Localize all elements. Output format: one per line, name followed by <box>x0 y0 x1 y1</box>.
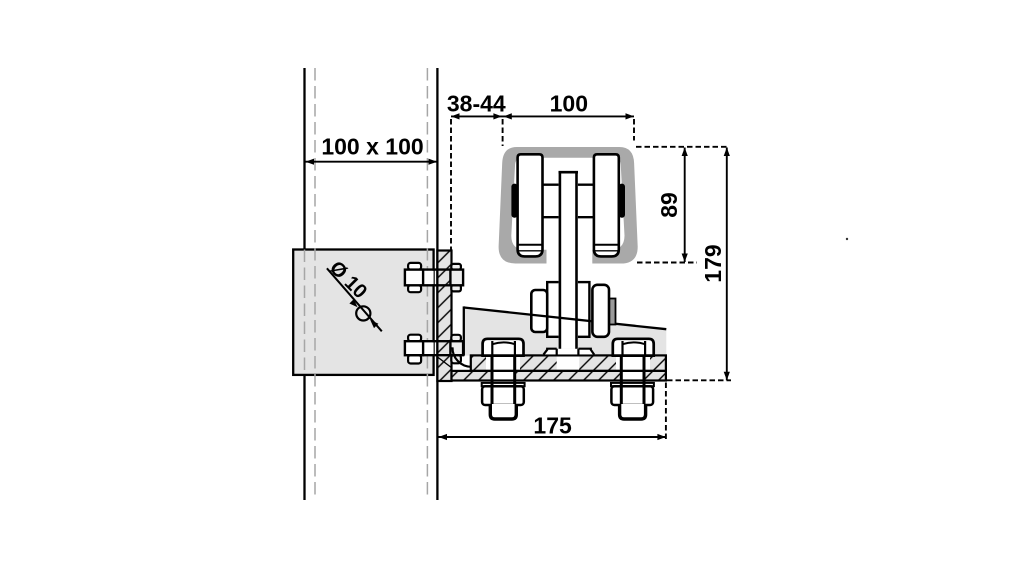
svg-text:179: 179 <box>700 244 726 282</box>
svg-text:100 x 100: 100 x 100 <box>321 134 423 160</box>
svg-text:175: 175 <box>533 413 572 439</box>
svg-text:38-44: 38-44 <box>447 90 506 116</box>
svg-text:89: 89 <box>656 192 682 218</box>
svg-text:100: 100 <box>550 90 588 116</box>
